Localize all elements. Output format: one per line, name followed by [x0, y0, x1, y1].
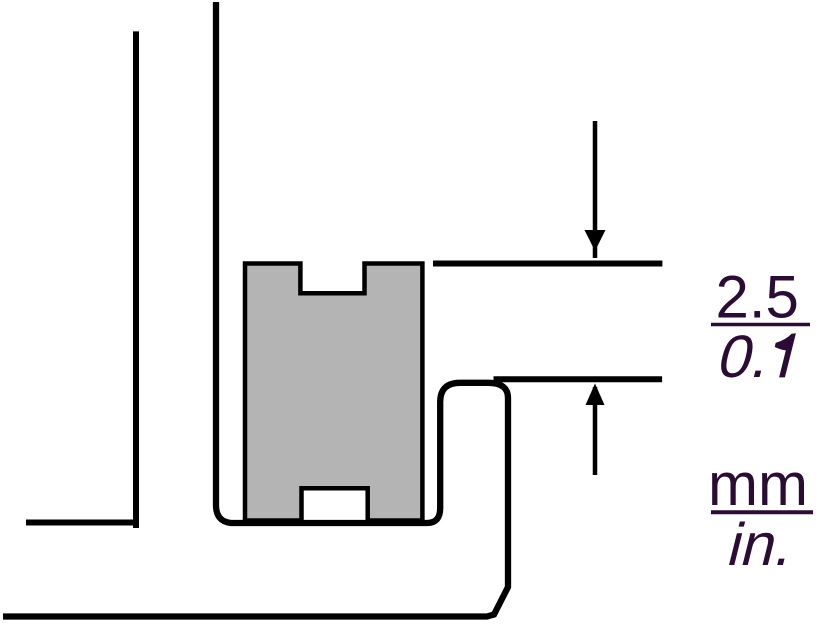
svg-text:2.5: 2.5: [716, 264, 799, 331]
svg-text:mm: mm: [708, 451, 808, 518]
